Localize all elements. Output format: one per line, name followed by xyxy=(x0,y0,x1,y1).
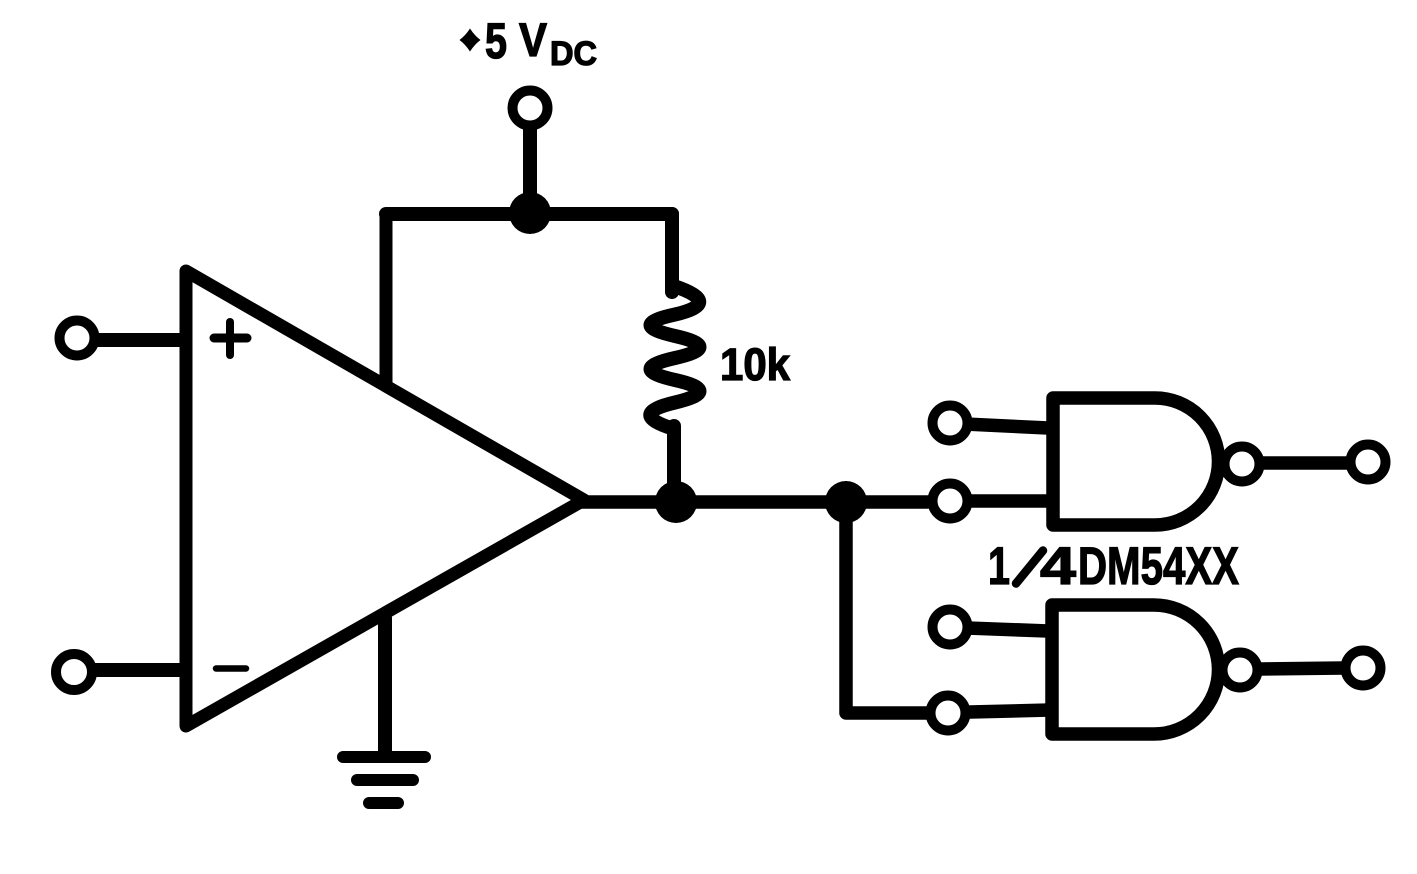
wire branch down xyxy=(846,502,927,713)
node +5V supply label xyxy=(460,13,598,73)
svg-text:DM54XX: DM54XX xyxy=(1078,537,1239,596)
wire non-inverting input xyxy=(96,333,183,347)
ground xyxy=(343,757,425,803)
wire op-amp V- pin to ground xyxy=(378,618,392,754)
wire top rail xyxy=(386,207,672,221)
wire supply terminal to rail xyxy=(523,128,537,212)
NAND gate U2B xyxy=(1052,605,1258,734)
label 1/4 DM54XX xyxy=(988,537,1239,596)
wire gate2 output xyxy=(1260,668,1344,669)
terminal inverting input xyxy=(56,654,92,690)
wire gate2 input A stub xyxy=(967,628,1048,631)
op-amp U1 xyxy=(186,271,584,726)
terminal gate1 input B xyxy=(933,484,968,519)
resistor R1 10k xyxy=(650,286,699,500)
svg-text:1: 1 xyxy=(988,537,1010,596)
wire rail to resistor xyxy=(665,214,679,292)
wire rail to op-amp V+ pin xyxy=(380,214,393,384)
wire inverting input xyxy=(94,663,183,677)
wire gate1 input B stub xyxy=(967,494,1050,508)
terminal gate1 input A xyxy=(933,406,968,441)
node junction supply rail xyxy=(509,192,551,234)
wire gate1 input A stub xyxy=(965,424,1048,428)
power terminal +5V xyxy=(513,91,548,126)
wire gate2 input B stub xyxy=(970,710,1050,712)
NAND gate U2A xyxy=(1053,398,1260,525)
svg-text:4: 4 xyxy=(1040,537,1077,596)
svg-text:V: V xyxy=(519,13,548,66)
node junction output branch xyxy=(825,481,867,523)
terminal non-inverting input xyxy=(60,321,95,356)
wire gate1 output xyxy=(1262,456,1348,470)
svg-text:DC: DC xyxy=(550,35,597,73)
terminal gate2 input A xyxy=(933,610,968,645)
svg-text:10k: 10k xyxy=(720,339,791,390)
terminal gate2 output xyxy=(1346,651,1381,686)
terminal gate2 input B xyxy=(931,696,966,731)
svg-text:5: 5 xyxy=(485,13,507,69)
wire op-amp output xyxy=(578,495,928,509)
terminal gate1 output xyxy=(1351,445,1386,480)
node junction resistor-output xyxy=(655,481,697,523)
